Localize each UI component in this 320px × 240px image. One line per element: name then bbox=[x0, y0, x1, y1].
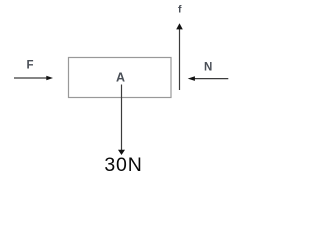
force arrow F (applied force, pointing right) bbox=[14, 76, 53, 81]
svg-text:A: A bbox=[116, 70, 125, 84]
svg-text:30N: 30N bbox=[104, 154, 142, 176]
force arrow 30N (weight, pointing down) bbox=[118, 85, 125, 156]
block A (rectangle) bbox=[69, 58, 172, 98]
svg-text:N: N bbox=[204, 61, 212, 73]
force arrow N (normal force, pointing left) bbox=[188, 76, 229, 81]
force arrow f (friction force, pointing up) bbox=[176, 23, 183, 90]
svg-text:F: F bbox=[26, 60, 33, 72]
svg-text:f: f bbox=[178, 4, 182, 16]
